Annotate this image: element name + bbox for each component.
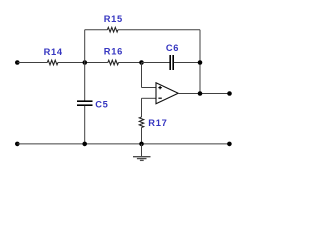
svg-text:R17: R17 xyxy=(148,118,167,128)
wire +input vertical drop xyxy=(141,63,143,88)
wire opamp output xyxy=(178,93,230,95)
wire R17 to bottom rail xyxy=(141,128,143,144)
svg-text:R14: R14 xyxy=(44,47,63,57)
op-amp U1 xyxy=(156,83,178,104)
wire right feedback vertical xyxy=(199,30,201,94)
wire R14 to center junction xyxy=(58,62,108,64)
node junction B (R16/C6/+input) xyxy=(139,60,144,65)
node junction E (C5/bottom rail) xyxy=(82,142,87,147)
resistor R16 xyxy=(104,47,123,65)
node bottom right terminal xyxy=(227,142,232,147)
node input left xyxy=(15,60,20,65)
wire R16 to opamp input junction xyxy=(119,62,142,64)
resistor R17 xyxy=(139,117,167,128)
wire +input horizontal xyxy=(142,87,157,89)
node output terminal xyxy=(227,91,232,96)
wire C6 left lead xyxy=(142,62,170,64)
wire top rail left segment xyxy=(85,29,108,31)
capacitor C5 xyxy=(77,100,108,110)
node bottom left terminal xyxy=(15,142,20,147)
wire bottom rail xyxy=(17,143,229,145)
svg-text:R15: R15 xyxy=(104,14,123,24)
wire left vertical upper (junction A up to top rail) xyxy=(84,30,86,63)
svg-text:C6: C6 xyxy=(166,43,179,53)
svg-text:R16: R16 xyxy=(104,47,123,57)
node junction A (R14/R16/C5/R15) xyxy=(83,60,88,65)
wire -input horizontal xyxy=(142,97,157,99)
wire -input vertical to R17 xyxy=(141,98,143,117)
wire C5 to bottom rail xyxy=(84,106,86,144)
wire top rail right segment xyxy=(118,29,200,31)
svg-text:C5: C5 xyxy=(95,100,108,110)
ground xyxy=(133,144,151,161)
wire left vertical to C5 xyxy=(84,63,86,101)
resistor R15 xyxy=(104,14,123,32)
capacitor C6 xyxy=(166,43,179,70)
node junction C (C6/feedback) xyxy=(198,60,203,65)
node junction D (output/feedback) xyxy=(198,91,203,96)
wire input to R14 xyxy=(17,62,47,64)
node junction F (R17/ground) xyxy=(139,142,144,147)
resistor R14 xyxy=(44,47,63,65)
wire C6 right lead xyxy=(174,62,200,64)
